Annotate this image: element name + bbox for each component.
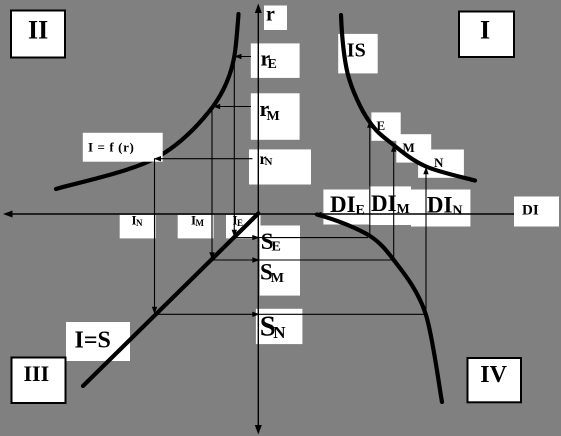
label box point N <box>418 150 464 178</box>
label box DIE <box>323 190 371 225</box>
svg-text:E: E <box>268 57 277 72</box>
label box DIM <box>369 186 411 225</box>
saving curve quadrant IV <box>317 215 442 403</box>
label box SN <box>256 309 303 344</box>
svg-text:I = f (r): I = f (r) <box>88 139 134 154</box>
label box SE <box>260 226 300 258</box>
svg-text:DI: DI <box>522 203 539 219</box>
svg-text:N: N <box>136 218 143 228</box>
svg-text:N: N <box>265 156 273 168</box>
label box rE <box>251 43 300 78</box>
quadrant box I <box>459 12 514 58</box>
svg-text:r: r <box>266 4 275 26</box>
wire rE level <box>234 54 251 59</box>
label box SM <box>260 257 300 296</box>
quadrant box IV <box>468 358 522 402</box>
svg-text:N: N <box>273 323 286 342</box>
svg-text:I: I <box>480 16 490 45</box>
svg-text:IS: IS <box>347 39 366 61</box>
svg-text:II: II <box>28 16 48 45</box>
wire SM level <box>212 257 395 262</box>
investment curve I=f(r) quadrant II <box>56 14 239 189</box>
wire DIM vertical <box>391 145 396 261</box>
svg-text:M: M <box>271 271 284 286</box>
label box point M <box>396 134 431 162</box>
label box I=f(r) <box>83 133 163 162</box>
svg-text:M: M <box>267 109 280 124</box>
svg-text:M: M <box>196 218 205 228</box>
label box I=S <box>66 322 130 361</box>
axis r vertical <box>255 4 262 435</box>
label box IM <box>178 213 214 239</box>
svg-text:I=S: I=S <box>75 328 111 354</box>
svg-text:M: M <box>397 202 410 217</box>
wire DIE vertical <box>367 121 372 237</box>
svg-text:DI: DI <box>371 191 397 216</box>
svg-text:IV: IV <box>480 362 507 388</box>
quadrant box II <box>11 11 65 58</box>
I=S line quadrant III <box>83 214 258 387</box>
wire rM level <box>213 104 251 109</box>
wire SE level <box>234 235 368 240</box>
svg-text:N: N <box>434 155 444 170</box>
label box point E <box>371 112 400 140</box>
IS curve quadrant I <box>341 15 475 181</box>
svg-text:E: E <box>272 240 281 255</box>
label box rM <box>251 93 300 140</box>
label box IE <box>226 213 261 239</box>
wire IE vertical <box>232 57 237 238</box>
label box IN <box>120 213 156 239</box>
label box r <box>264 4 287 30</box>
svg-text:N: N <box>452 204 462 219</box>
wire rN level <box>154 156 253 161</box>
svg-text:E: E <box>237 218 243 228</box>
svg-text:III: III <box>24 361 50 386</box>
wire IM vertical <box>209 107 214 260</box>
label box rN <box>249 149 311 184</box>
wire SN level <box>155 312 426 317</box>
label box IS <box>338 34 378 74</box>
svg-text:E: E <box>356 203 365 218</box>
label box DIN <box>411 190 470 227</box>
saving curve quadrant IV start arrowhead <box>314 212 322 218</box>
axis I-DI horizontal <box>3 211 514 218</box>
quadrant box III <box>12 358 66 404</box>
label box DI <box>514 197 559 227</box>
wire IN vertical <box>152 159 157 314</box>
wire DIN vertical <box>423 167 428 314</box>
